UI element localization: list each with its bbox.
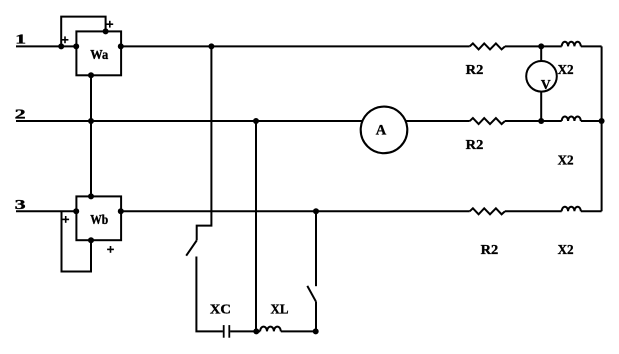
wire Wa voltage-coil loop <box>61 17 105 47</box>
node Wb bottom pin <box>88 237 94 243</box>
svg-text:1: 1 <box>15 32 26 47</box>
voltmeter V <box>526 61 557 92</box>
inductor X2 (line 2) <box>562 116 581 121</box>
polarity mark + (Wb line side) <box>62 216 69 223</box>
wire voltmeter branch vertical <box>540 46 542 121</box>
wire line 3 (phase 3 horizontal) <box>16 210 602 212</box>
node line2/right bus <box>599 118 605 124</box>
wire vertical from line 3 to XL switch <box>315 211 317 286</box>
wattmeter Wb <box>76 196 121 240</box>
svg-text:2: 2 <box>15 107 26 122</box>
node Wb top pin <box>88 193 94 199</box>
node line1/XC branch <box>208 43 214 49</box>
inductor X2 (line 3) <box>562 207 581 212</box>
wire Wa bottom to Wb top vertical <box>90 75 92 196</box>
wire vertical from line 1 to XC switch <box>197 46 212 240</box>
wire XC lower lead <box>196 257 223 332</box>
resistor R2 (line 2) <box>470 118 505 124</box>
wire line 1 (phase 1 horizontal) <box>16 45 602 47</box>
svg-text:A: A <box>376 123 387 139</box>
node line3/Wb left pin <box>73 208 79 214</box>
wattmeter Wa <box>76 31 121 75</box>
svg-text:R2: R2 <box>466 137 484 152</box>
wire Wb voltage-coil loop <box>62 211 92 271</box>
wire vertical from line 2 to bottom node <box>255 121 257 331</box>
node line1/Wa left pin <box>73 43 79 49</box>
inductor X2 (line 1) <box>562 42 581 47</box>
svg-text:X2: X2 <box>558 242 574 257</box>
node line1/Wa loop <box>58 43 64 49</box>
resistor R2 (line 3) <box>470 208 505 214</box>
wire line 2 (phase 2 horizontal) <box>16 120 602 122</box>
node line2/voltmeter branch <box>538 118 544 124</box>
capacitor XC <box>224 325 230 338</box>
svg-text:X2: X2 <box>558 153 574 168</box>
node line1/Wa right pin <box>118 43 124 49</box>
node line2/wattmeter vertical <box>88 118 94 124</box>
wire XL switch lower lead <box>315 301 317 331</box>
svg-text:3: 3 <box>15 197 26 212</box>
inductor XL <box>260 327 281 332</box>
svg-text:Wb: Wb <box>90 212 108 227</box>
switch blade (XL branch, open) <box>307 286 316 301</box>
switch blade (XC branch, open) <box>186 240 197 255</box>
svg-text:Wa: Wa <box>90 47 108 62</box>
svg-text:V: V <box>541 77 551 92</box>
svg-text:R2: R2 <box>466 62 484 77</box>
polarity mark + (Wa line side) <box>62 36 69 43</box>
wire right vertical bus <box>601 46 603 211</box>
svg-text:XL: XL <box>271 301 289 316</box>
node line3/Wb right pin <box>118 208 124 214</box>
node line1/voltmeter branch <box>538 43 544 49</box>
node line2/XL branch <box>253 118 259 124</box>
node Wa bottom pin <box>88 72 94 78</box>
wire XL to right bottom node <box>281 330 316 332</box>
polarity mark + (Wb bottom side) <box>107 246 114 253</box>
svg-text:XC: XC <box>210 301 231 316</box>
node bottom XC/XL junction <box>253 328 259 334</box>
node Wa top pin <box>103 28 109 34</box>
node bottom XL/switch junction <box>313 328 319 334</box>
svg-text:R2: R2 <box>481 242 499 257</box>
ammeter A <box>361 107 408 154</box>
node line3/XL switch branch <box>313 208 319 214</box>
polarity mark + (Wa top side) <box>106 21 113 28</box>
resistor R2 (line 1) <box>470 43 505 49</box>
svg-text:X2: X2 <box>558 62 574 77</box>
wire capacitor to node (bottom) <box>230 330 260 332</box>
